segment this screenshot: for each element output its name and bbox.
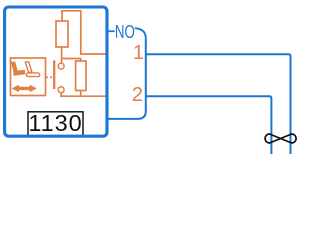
wire junction to R2 top [61, 59, 80, 62]
wire R1 top bypass to terminal 1 [62, 11, 107, 54]
wire terminal 1 [146, 54, 291, 154]
svg-text:1: 1 [133, 42, 144, 64]
resistor R1 [56, 21, 68, 47]
seat icon double arrow [12, 85, 36, 92]
wire terminal 2 [146, 96, 272, 154]
wire R1 bottom to top contact [61, 47, 63, 63]
seat icon left seat (filled) [11, 62, 17, 73]
switch contact circle top [58, 63, 64, 69]
svg-text:2: 2 [132, 84, 143, 106]
svg-text:NO: NO [115, 21, 135, 42]
switch contact circle bottom [58, 87, 64, 93]
twisted pair symbol [265, 134, 296, 143]
seat position sensor icon frame [11, 58, 46, 96]
svg-text:1130: 1130 [28, 110, 82, 136]
label 1130 box [28, 112, 83, 137]
resistor R2 [76, 61, 86, 91]
wire bottom contact to terminal 2 [61, 93, 106, 97]
mechanical link (dashed) [46, 76, 52, 78]
component box 1130 [5, 7, 107, 136]
leader arc from NO to connector [135, 28, 146, 38]
connector line [107, 39, 146, 119]
wire R2 bottom stub [80, 91, 82, 97]
seat icon right seat (outline) [25, 62, 32, 73]
terminal tick NO [108, 30, 115, 32]
switch lever [53, 60, 55, 89]
